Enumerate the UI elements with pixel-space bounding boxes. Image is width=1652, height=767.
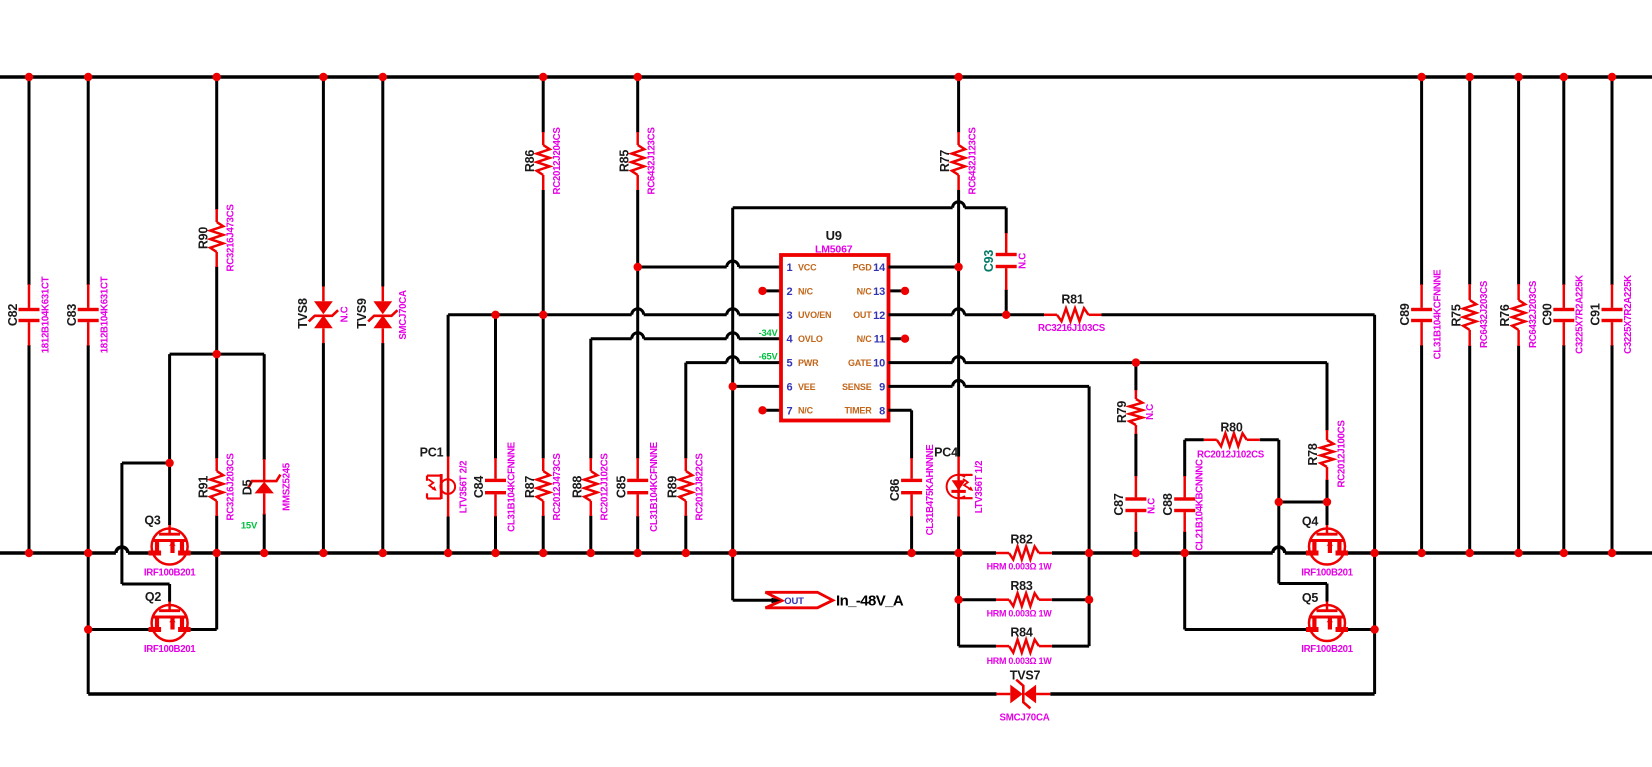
svg-text:IRF100B201: IRF100B201	[144, 568, 196, 579]
svg-text:LM5067: LM5067	[815, 243, 853, 255]
label C88	[1161, 493, 1175, 516]
wire pin4 OVLO net	[591, 333, 781, 339]
label Q3 part	[144, 568, 196, 579]
label R88	[570, 476, 584, 499]
svg-text:N/C: N/C	[857, 286, 873, 296]
svg-text:N/C: N/C	[857, 334, 873, 344]
svg-text:SMCJ70CA: SMCJ70CA	[398, 290, 409, 340]
label R76	[1498, 304, 1512, 327]
svg-text:2: 2	[787, 286, 793, 298]
svg-text:R90: R90	[196, 227, 210, 250]
label D5 part	[281, 462, 292, 511]
label R88 part	[600, 453, 611, 521]
label Q4 part	[1301, 568, 1353, 579]
svg-text:IRF100B201: IRF100B201	[1301, 644, 1353, 655]
label C82 part	[40, 276, 51, 353]
svg-text:UVO/EN: UVO/EN	[798, 310, 831, 320]
svg-text:C91: C91	[1589, 303, 1603, 326]
svg-text:IRF100B201: IRF100B201	[144, 644, 196, 655]
pin 11 N/C stub	[889, 335, 910, 343]
svg-text:U9: U9	[826, 228, 842, 243]
label R76 part	[1528, 280, 1539, 348]
svg-text:R89: R89	[665, 476, 679, 499]
svg-text:VEE: VEE	[798, 382, 816, 392]
label C83 part	[100, 276, 111, 353]
wire PGD pin14 net	[889, 266, 959, 269]
svg-text:CL31B475KAHNNNE: CL31B475KAHNNNE	[925, 444, 936, 536]
svg-text:HRM 0.003Ω 1W: HRM 0.003Ω 1W	[987, 609, 1053, 619]
label PC1	[420, 446, 444, 460]
wire R80 to gate node	[1277, 440, 1280, 502]
svg-text:R76: R76	[1498, 304, 1512, 327]
capacitor C93	[996, 208, 1017, 315]
label R86	[523, 150, 537, 173]
svg-text:N.C: N.C	[1145, 404, 1156, 420]
label Q2 part	[144, 644, 196, 655]
pin name GATE pin 10	[848, 358, 872, 368]
svg-text:R81: R81	[1061, 293, 1084, 307]
svg-text:GATE: GATE	[848, 358, 872, 368]
svg-text:R77: R77	[938, 150, 952, 173]
svg-text:In_-48V_A: In_-48V_A	[836, 593, 904, 610]
label Q2	[145, 590, 162, 604]
wire Q2-Q3 gate tie upper	[122, 462, 170, 465]
label R89 part	[695, 453, 706, 521]
svg-text:R79: R79	[1115, 401, 1129, 424]
wire R80 net	[1185, 438, 1279, 441]
label C93 N.C	[1018, 253, 1029, 269]
capacitor C87	[1125, 476, 1146, 553]
svg-text:RC2012J100CS: RC2012J100CS	[1337, 420, 1348, 488]
resistor R85	[631, 77, 644, 267]
wire SENSE vertical	[1088, 386, 1091, 646]
resistor R80	[1204, 433, 1260, 446]
pin number 5	[787, 358, 793, 370]
transistor Q5	[1306, 602, 1348, 642]
TVS diode TVS7	[996, 680, 1050, 709]
svg-text:TVS8: TVS8	[296, 298, 310, 329]
label C87 N.C	[1147, 498, 1158, 514]
label C89 part	[1433, 269, 1444, 360]
label R90	[196, 227, 210, 250]
capacitor C86	[901, 410, 922, 553]
svg-text:11: 11	[874, 334, 885, 346]
label PC1 part	[459, 461, 470, 514]
label R81	[1061, 293, 1084, 307]
resistor R87	[537, 315, 550, 553]
svg-text:-65V: -65V	[759, 351, 779, 361]
svg-text:Q4: Q4	[1302, 515, 1319, 529]
capacitor C88	[1174, 476, 1195, 553]
label C86 part	[925, 444, 936, 536]
capacitor C89	[1411, 77, 1432, 553]
label R77	[938, 150, 952, 173]
svg-text:1: 1	[787, 262, 793, 274]
label R79	[1115, 401, 1129, 424]
svg-text:PC4: PC4	[934, 446, 958, 460]
label C86	[888, 479, 902, 502]
svg-text:RC2012J102CS: RC2012J102CS	[1197, 450, 1265, 461]
resistor R77	[952, 77, 965, 267]
svg-text:14: 14	[873, 262, 886, 274]
pin number 14	[873, 262, 886, 274]
wire GATE pin10 net	[889, 357, 1328, 363]
svg-text:R86: R86	[523, 150, 537, 173]
capacitor C91	[1602, 77, 1623, 553]
svg-text:Q2: Q2	[145, 590, 162, 604]
label Q5	[1302, 591, 1319, 605]
capacitor C85	[627, 267, 648, 553]
svg-text:TVS7: TVS7	[1010, 669, 1041, 683]
wire gate tie vertical	[120, 463, 123, 584]
pin name PGD pin 14	[853, 262, 873, 272]
label R83 value	[987, 609, 1053, 619]
svg-text:R84: R84	[1010, 626, 1033, 640]
pin number 10	[873, 358, 885, 370]
label C85	[614, 476, 628, 499]
svg-text:N/C: N/C	[798, 286, 814, 296]
svg-text:LTV356T 1/2: LTV356T 1/2	[974, 461, 985, 514]
svg-text:R91: R91	[196, 476, 210, 499]
svg-text:CL31B104KCFNNNE: CL31B104KCFNNNE	[649, 441, 660, 532]
wire Q4 Q5 gate link	[1279, 502, 1327, 584]
svg-text:RC6432J203CS: RC6432J203CS	[1479, 280, 1490, 348]
label R85 part	[647, 127, 658, 195]
label C90 part	[1575, 275, 1586, 354]
op-amp U9 LM5067 body	[781, 255, 889, 421]
pin name N/C pin 7	[798, 406, 814, 416]
label C91 part	[1623, 275, 1634, 354]
pin name PWR pin 5	[798, 358, 819, 368]
svg-text:-34V: -34V	[759, 328, 779, 338]
pin number 1	[787, 262, 793, 274]
wire top power rail	[0, 75, 1652, 78]
label TVS7 part	[999, 713, 1049, 724]
label U9	[826, 228, 842, 243]
pin name VEE pin 6	[798, 382, 816, 392]
svg-text:RC2012J204CS: RC2012J204CS	[552, 127, 563, 195]
svg-text:R75: R75	[1449, 304, 1463, 327]
svg-text:C3225X7R2A225K: C3225X7R2A225K	[1623, 275, 1634, 354]
TVS diode TVS9	[368, 77, 397, 553]
svg-text:N/C: N/C	[798, 406, 814, 416]
svg-text:N.C: N.C	[1147, 498, 1158, 514]
pin 13 N/C stub	[889, 287, 910, 295]
svg-text:SENSE: SENSE	[842, 382, 872, 392]
pin name UVO/EN pin 3	[798, 310, 831, 320]
label R89	[665, 476, 679, 499]
optocoupler PC4 LED	[947, 457, 974, 517]
label R78	[1306, 443, 1320, 466]
capacitor C84	[485, 315, 506, 553]
capacitor C90	[1553, 77, 1574, 553]
label C84 part	[507, 441, 518, 532]
svg-text:OUT: OUT	[784, 596, 804, 607]
label R80 part	[1197, 450, 1265, 461]
svg-text:PGD: PGD	[853, 262, 873, 272]
label C89	[1398, 303, 1412, 326]
svg-text:SMCJ70CA: SMCJ70CA	[999, 713, 1049, 724]
svg-text:D5: D5	[240, 479, 254, 495]
svg-text:CL31B104KCFNNNE: CL31B104KCFNNNE	[507, 441, 518, 532]
label U9 part LM5067	[815, 243, 853, 255]
svg-text:PC1: PC1	[420, 446, 444, 460]
label Q3	[144, 514, 161, 528]
label D5 voltage 15V	[241, 521, 258, 532]
pin number 8	[879, 405, 885, 417]
label R86 part	[552, 127, 563, 195]
svg-text:C85: C85	[614, 476, 628, 499]
label C90	[1540, 303, 1554, 326]
label Q5 part	[1301, 644, 1353, 655]
label TVS9	[355, 298, 369, 329]
label C93	[982, 250, 996, 273]
label R75 part	[1479, 280, 1490, 348]
svg-text:1812B104K631CT: 1812B104K631CT	[100, 276, 111, 353]
svg-text:R83: R83	[1010, 579, 1033, 593]
pin number 3	[787, 310, 793, 322]
optocoupler PC1 phototransistor	[427, 315, 455, 553]
svg-text:RC3216J473CS: RC3216J473CS	[226, 204, 237, 272]
pin number 11	[874, 334, 885, 346]
svg-text:C90: C90	[1540, 303, 1554, 326]
label R84 value	[987, 656, 1053, 666]
svg-text:10: 10	[873, 358, 885, 370]
label D5	[240, 479, 254, 495]
capacitor C83	[78, 77, 99, 553]
label TVS8 N.C	[340, 306, 351, 322]
label R91	[196, 476, 210, 499]
svg-text:OVLO: OVLO	[798, 334, 823, 344]
pin name OVLO pin 4	[798, 334, 823, 344]
svg-text:N.C: N.C	[1018, 253, 1029, 269]
label R90 part	[226, 204, 237, 272]
svg-text:MMSZ5245: MMSZ5245	[281, 462, 292, 511]
svg-text:C82: C82	[6, 304, 20, 327]
label R85	[617, 150, 631, 173]
capacitor C82	[19, 77, 40, 553]
wire bottom VEE rail (left section)	[0, 547, 996, 553]
svg-text:OUT: OUT	[853, 310, 872, 320]
label C87	[1112, 493, 1126, 516]
resistor R90	[210, 77, 223, 354]
svg-text:R80: R80	[1220, 421, 1243, 435]
label -65V PWR threshold	[759, 351, 779, 361]
pin number 12	[873, 310, 885, 322]
wire Q3 gate riser	[168, 354, 171, 525]
label C88 part	[1195, 459, 1206, 551]
wire pin1 VCC net	[638, 261, 781, 267]
svg-text:C83: C83	[65, 304, 79, 327]
label R80	[1220, 421, 1243, 435]
wire SENSE pin9 net	[889, 380, 1090, 386]
resistor R76	[1512, 77, 1525, 553]
wire pin6 vertical to rail	[731, 208, 734, 553]
pin name SENSE pin 9	[842, 382, 872, 392]
pin number 4	[787, 334, 794, 346]
wire bottom rail (right section)	[1052, 547, 1652, 553]
pin name N/C pin 11	[857, 334, 873, 344]
label PC4	[934, 446, 958, 460]
zener diode D5	[248, 354, 280, 553]
port OUT arrow	[765, 592, 832, 608]
label R91 part	[226, 453, 237, 521]
wire pin6 VEE stub	[733, 385, 781, 388]
svg-text:1812B104K631CT: 1812B104K631CT	[40, 276, 51, 353]
svg-text:CL31B104KCFNNNE: CL31B104KCFNNNE	[1433, 269, 1444, 360]
resistor R84	[996, 640, 1052, 653]
svg-text:Q3: Q3	[144, 514, 161, 528]
svg-text:C88: C88	[1161, 493, 1175, 516]
label TVS9 part	[398, 290, 409, 340]
svg-text:9: 9	[879, 381, 885, 393]
label C83	[65, 304, 79, 327]
wire Q2/Q3 gate link wire	[170, 353, 265, 356]
svg-text:HRM 0.003Ω 1W: HRM 0.003Ω 1W	[987, 562, 1053, 572]
label R82 value	[987, 562, 1053, 572]
resistor R86	[537, 77, 550, 315]
svg-text:C86: C86	[888, 479, 902, 502]
wire Q4 gate lead	[1326, 502, 1329, 525]
label C82	[6, 304, 20, 327]
svg-text:RC2012J822CS: RC2012J822CS	[695, 453, 706, 521]
svg-text:RC6432J123CS: RC6432J123CS	[647, 127, 658, 195]
wire TIMER pin8 net	[889, 409, 912, 412]
pin 2 N/C stub	[758, 287, 781, 295]
label R83	[1010, 579, 1033, 593]
svg-text:R78: R78	[1306, 443, 1320, 466]
svg-text:IRF100B201: IRF100B201	[1301, 568, 1353, 579]
svg-text:13: 13	[873, 286, 885, 298]
pin 7 N/C stub	[758, 406, 781, 414]
label Q4	[1302, 515, 1319, 529]
wire pin5 PWR net	[686, 357, 781, 363]
svg-text:R87: R87	[523, 476, 537, 499]
label R82	[1010, 533, 1033, 547]
label R81 part	[1038, 323, 1106, 334]
svg-text:C3225X7R2A225K: C3225X7R2A225K	[1575, 275, 1586, 354]
wire Q5 gate lead	[1326, 584, 1329, 602]
junction dots top rail	[25, 73, 1616, 81]
svg-text:15V: 15V	[241, 521, 258, 532]
label TVS7	[1010, 669, 1041, 683]
svg-text:RC2012J102CS: RC2012J102CS	[600, 453, 611, 521]
wire pin3 UVO/EN net	[448, 309, 781, 315]
wire R77 column mid	[957, 267, 960, 457]
pin number 13	[873, 286, 885, 298]
pin number 2	[787, 286, 793, 298]
label C91	[1589, 303, 1603, 326]
label TVS8	[296, 298, 310, 329]
wire R80 left to C88	[1183, 440, 1186, 477]
wire Q5 drain	[1348, 628, 1375, 631]
resistor R81	[1044, 308, 1102, 321]
label R79 N.C	[1145, 404, 1156, 420]
wire PC4 to rail	[957, 517, 960, 554]
svg-text:8: 8	[879, 405, 885, 417]
svg-text:N.C: N.C	[340, 306, 351, 322]
wire Q2 gate tie lower	[122, 584, 170, 602]
pin name OUT pin 12	[853, 310, 872, 320]
wire OUT pin12 net	[889, 309, 1045, 315]
label net In_-48V_A	[836, 593, 904, 610]
pin number 6	[787, 381, 793, 393]
wire R83 net	[959, 598, 1090, 601]
svg-text:5: 5	[787, 358, 793, 370]
svg-text:C87: C87	[1112, 493, 1126, 516]
svg-text:VCC: VCC	[798, 262, 817, 272]
svg-text:R82: R82	[1010, 533, 1033, 547]
wire Q2 drain to rail	[191, 553, 217, 630]
svg-text:CL21B104KBCNNNC: CL21B104KBCNNNC	[1195, 459, 1206, 551]
label C84	[472, 476, 486, 499]
wire bottom return bus	[88, 692, 1374, 695]
wire Q2 source	[88, 628, 148, 631]
svg-text:C89: C89	[1398, 303, 1412, 326]
svg-text:TIMER: TIMER	[845, 406, 873, 416]
resistor R89	[679, 363, 692, 553]
resistor R88	[584, 339, 597, 553]
wire sense left vertical	[957, 553, 960, 646]
svg-text:RC3216J103CS: RC3216J103CS	[1038, 323, 1106, 334]
svg-text:LTV356T 2/2: LTV356T 2/2	[459, 461, 470, 514]
pin name N/C pin 13	[857, 286, 873, 296]
svg-text:RC3216J203CS: RC3216J203CS	[226, 453, 237, 521]
svg-text:6: 6	[787, 381, 793, 393]
wire VEE to OUT port	[733, 553, 778, 600]
TVS diode TVS8	[309, 77, 338, 553]
label R78 part	[1337, 420, 1348, 488]
svg-text:PWR: PWR	[798, 358, 819, 368]
svg-text:HRM 0.003Ω 1W: HRM 0.003Ω 1W	[987, 656, 1053, 666]
svg-text:Q5: Q5	[1302, 591, 1319, 605]
label R75	[1449, 304, 1463, 327]
svg-text:R88: R88	[570, 476, 584, 499]
resistor R79	[1129, 363, 1142, 477]
resistor R78	[1321, 363, 1334, 502]
transistor Q4	[1306, 525, 1348, 565]
label PC4 part	[974, 461, 985, 514]
resistor R83	[996, 593, 1052, 606]
wire gate node to R78	[1279, 501, 1327, 504]
svg-text:R85: R85	[617, 150, 631, 173]
label C85 part	[649, 441, 660, 532]
wire C83 branch to Q2/bottom bus	[87, 553, 90, 694]
label -34V OVLO threshold	[759, 328, 779, 338]
svg-text:RC2012J473CS: RC2012J473CS	[552, 453, 563, 521]
pin number 7	[787, 405, 793, 417]
svg-text:TVS9: TVS9	[355, 298, 369, 329]
transistor Q3	[149, 525, 191, 565]
junction dots bottom rail	[25, 549, 1616, 557]
junction dots mid nets	[84, 263, 1379, 634]
label R77 part	[967, 127, 978, 195]
resistor R82	[996, 547, 1052, 560]
svg-text:3: 3	[787, 310, 793, 322]
svg-text:7: 7	[787, 405, 793, 417]
label R87 part	[552, 453, 563, 521]
svg-text:C93: C93	[982, 250, 996, 273]
wire R84 net	[959, 645, 1090, 648]
pin number 9	[879, 381, 885, 393]
svg-text:RC6432J203CS: RC6432J203CS	[1528, 280, 1539, 348]
wire R81 output to Q5 drain column	[1102, 315, 1375, 694]
transistor Q2	[149, 602, 191, 642]
svg-text:RC6432J123CS: RC6432J123CS	[967, 127, 978, 195]
pin name TIMER pin 8	[845, 406, 873, 416]
wire U9 top bypass wire	[733, 202, 1007, 208]
label R84	[1010, 626, 1033, 640]
